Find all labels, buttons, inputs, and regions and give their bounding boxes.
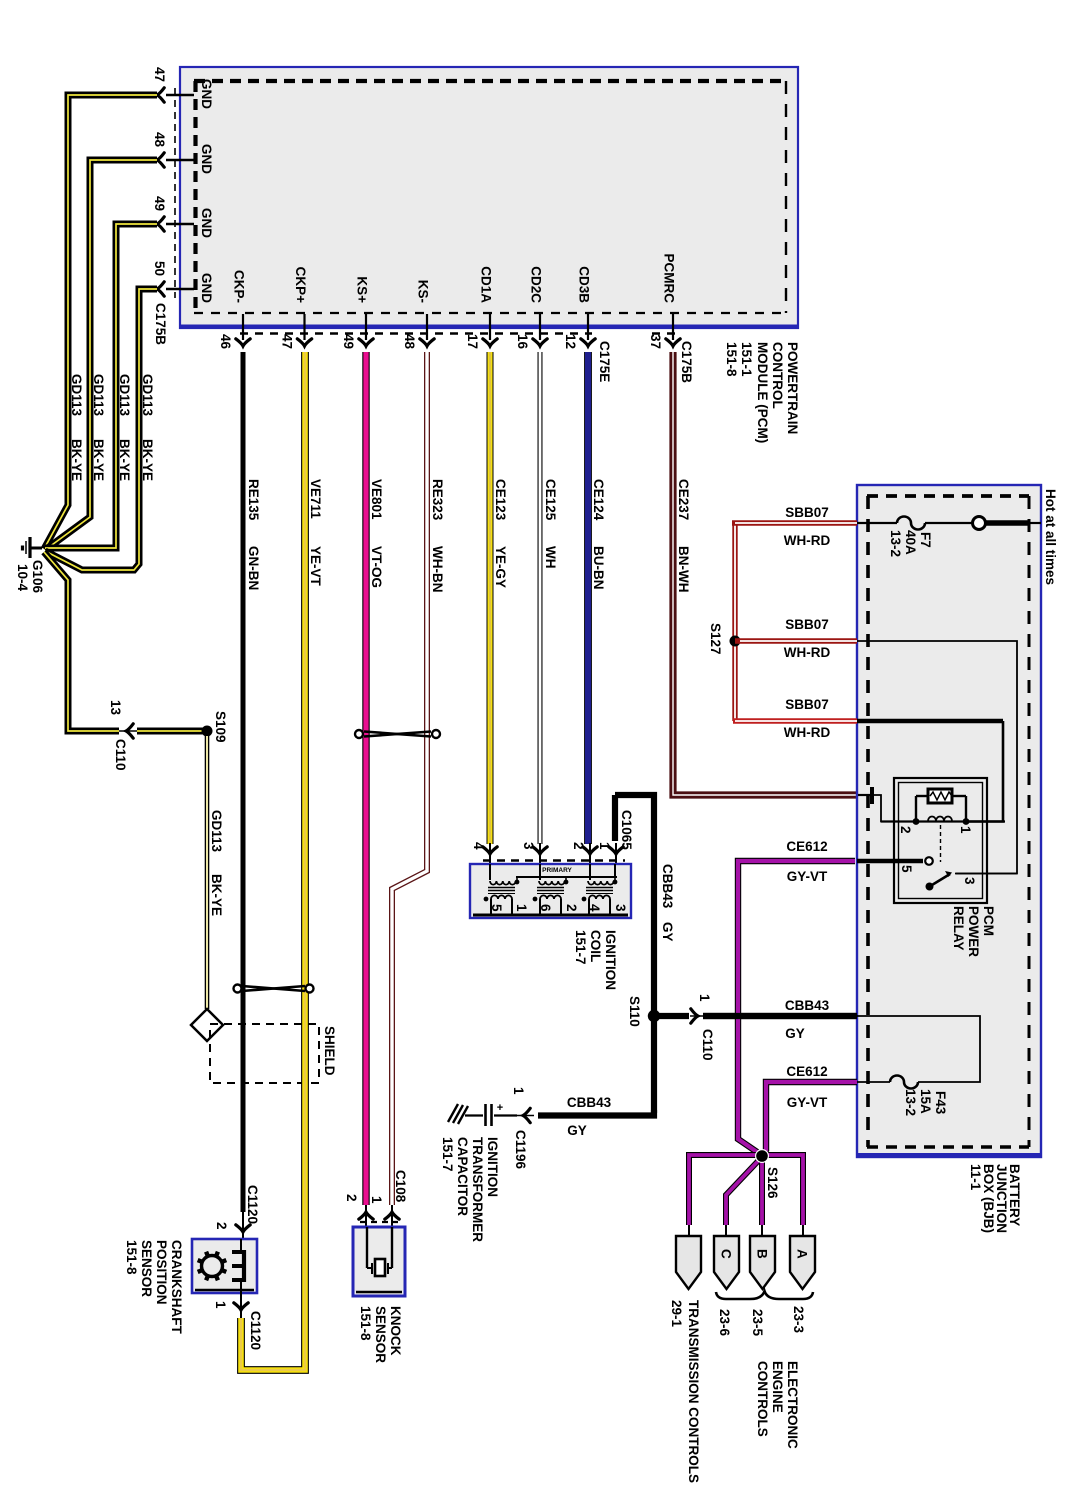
svg-text:CBB43: CBB43 <box>660 864 675 909</box>
svg-text:ENGINE: ENGINE <box>770 1361 785 1413</box>
splice S110 <box>627 996 660 1027</box>
crankshaft sensor pickup <box>232 1239 244 1294</box>
PCM label <box>724 342 800 443</box>
wire SBB07 WH-RD bottom <box>733 697 857 740</box>
svg-text:C175E: C175E <box>597 341 612 382</box>
svg-text:C1120: C1120 <box>245 1185 260 1224</box>
wire CE612 GY-VT fuse F43 to S126 <box>762 1064 857 1155</box>
svg-text:RELAY: RELAY <box>951 906 966 951</box>
svg-text:GY-VT: GY-VT <box>787 869 828 884</box>
wire S126 to transmission connector <box>689 1155 762 1237</box>
wire CBB43 GY S110 to BJB <box>654 998 857 1041</box>
ignition coil pin 4 <box>471 842 497 864</box>
ignition transformer capacitor <box>465 1102 517 1126</box>
wire CBB43 GY over purple crossing <box>703 1013 857 1019</box>
crankshaft position sensor box <box>192 1239 257 1293</box>
svg-text:CONTROLS: CONTROLS <box>755 1361 770 1437</box>
svg-text:CE123: CE123 <box>493 479 508 521</box>
label BATTERY JUNCTION BOX (BJB) 11-1 <box>968 1164 1022 1233</box>
ignition coil box <box>470 864 631 918</box>
wire GD113 BK-YE from pin 49 <box>45 224 157 548</box>
svg-text:F43: F43 <box>933 1091 948 1115</box>
CE237 terminal at BJB <box>858 787 898 822</box>
svg-text:5: 5 <box>489 904 504 912</box>
inline connector C1196 pin 1 <box>511 1087 534 1170</box>
svg-text:2: 2 <box>344 1194 359 1202</box>
splice S109 <box>202 711 229 743</box>
svg-text:151-8: 151-8 <box>124 1240 139 1275</box>
ignition coil pin 2 <box>571 842 597 864</box>
svg-text:BK-YE: BK-YE <box>117 439 132 481</box>
wire CE237 BN-WH (PCMRC) <box>673 352 858 795</box>
svg-text:2: 2 <box>571 842 586 850</box>
svg-text:3: 3 <box>613 904 628 912</box>
svg-text:BK-YE: BK-YE <box>140 439 155 481</box>
svg-text:GND: GND <box>199 79 214 109</box>
PCM pin 37 PCMRC <box>648 254 680 350</box>
svg-text:1: 1 <box>697 994 712 1002</box>
svg-text:BN-WH: BN-WH <box>676 546 691 593</box>
svg-text:SBB07: SBB07 <box>785 505 829 520</box>
svg-text:1: 1 <box>511 1087 526 1095</box>
svg-text:CD2C: CD2C <box>529 266 544 303</box>
wire CE123 YE-GY (CD1A) <box>490 352 508 844</box>
battery junction box BJB <box>857 485 1041 1157</box>
svg-text:3: 3 <box>521 842 536 850</box>
svg-text:1: 1 <box>213 1301 228 1309</box>
svg-text:151-7: 151-7 <box>573 930 588 965</box>
labels 29-1 23-6 23-5 23-3 <box>669 1300 806 1337</box>
svg-text:151-8: 151-8 <box>724 342 739 377</box>
svg-text:VT-OG: VT-OG <box>369 546 384 588</box>
svg-text:GND: GND <box>199 208 214 238</box>
svg-text:CD3B: CD3B <box>577 266 592 303</box>
svg-text:GD113: GD113 <box>91 374 106 417</box>
ignition coil transformers <box>484 864 618 914</box>
svg-text:VE801: VE801 <box>369 479 384 520</box>
svg-text:GD113: GD113 <box>209 810 224 853</box>
svg-text:POSITION: POSITION <box>154 1240 169 1305</box>
svg-text:+: + <box>497 1102 503 1114</box>
svg-text:13-2: 13-2 <box>888 530 903 557</box>
svg-text:RE135: RE135 <box>246 479 261 521</box>
svg-text:GY: GY <box>660 922 675 942</box>
shield dashed box <box>210 1024 319 1083</box>
wire CBB43 to fuse F43 <box>857 1016 980 1082</box>
wire SBB07 WH-RD middle <box>735 617 857 660</box>
label KNOCK SENSOR 151-8 <box>358 1306 403 1363</box>
inline connector C1120 pin 1 <box>213 1294 263 1350</box>
hot feed line <box>986 520 1041 526</box>
svg-text:TRANSMISSION CONTROLS: TRANSMISSION CONTROLS <box>686 1300 701 1483</box>
svg-text:47: 47 <box>280 334 295 349</box>
svg-text:SBB07: SBB07 <box>785 697 829 712</box>
svg-text:CAPACITOR: CAPACITOR <box>455 1137 470 1216</box>
wire CE124 BU-BN (CD3B) <box>588 352 606 844</box>
inline connector C110 pin 1 (right) <box>690 994 715 1061</box>
fuse F7 40A <box>857 517 972 558</box>
labels GD113 BK-YE x4 <box>69 374 155 481</box>
wire GD113 BK-YE S109 to shield <box>207 736 224 1009</box>
svg-text:CD1A: CD1A <box>479 266 494 303</box>
svg-text:POWERTRAIN: POWERTRAIN <box>785 342 800 434</box>
svg-text:49: 49 <box>341 334 356 349</box>
svg-text:40A: 40A <box>903 530 918 555</box>
wire S126 to connector C <box>726 1159 760 1237</box>
svg-text:1: 1 <box>369 1196 384 1204</box>
svg-text:5: 5 <box>899 865 914 873</box>
svg-text:151-8: 151-8 <box>358 1306 373 1341</box>
wire to relay pin 3 (from S127) <box>857 641 1017 874</box>
label CRANKSHAFT POSITION SENSOR 151-8 <box>124 1240 184 1334</box>
svg-text:RE323: RE323 <box>430 479 445 521</box>
twisted pair symbol CKP wires <box>234 985 314 993</box>
svg-text:S126: S126 <box>765 1167 780 1199</box>
chassis ground (capacitor) <box>448 1104 468 1124</box>
PCM pin 12 CD3B <box>563 266 595 349</box>
svg-text:S127: S127 <box>708 623 723 655</box>
svg-text:WH-BN: WH-BN <box>430 546 445 593</box>
svg-text:GY: GY <box>785 1026 805 1041</box>
wire GD113 BK-YE ground to C110 <box>44 552 204 731</box>
svg-text:WH-RD: WH-RD <box>784 645 831 660</box>
inline connector C108 <box>344 1170 408 1227</box>
wire GD113 BK-YE from pin 48 <box>45 160 157 550</box>
svg-text:151-1: 151-1 <box>739 342 754 377</box>
svg-text:S110: S110 <box>627 996 642 1027</box>
svg-text:C110: C110 <box>700 1029 715 1061</box>
wire SBB07 WH-RD vertical <box>732 523 737 721</box>
crankshaft sensor gear <box>198 1252 227 1281</box>
svg-text:C1065: C1065 <box>619 810 634 850</box>
svg-text:WH-RD: WH-RD <box>784 725 831 740</box>
svg-text:GD113: GD113 <box>69 374 84 417</box>
wire VE711 YE-VT (CKP+) <box>241 352 323 1370</box>
svg-text:50: 50 <box>152 261 167 276</box>
wire RE135 GN-BN (CKP-) <box>243 352 261 1212</box>
wire RE323 WH-BN (KS-) <box>392 352 445 1205</box>
svg-text:SENSOR: SENSOR <box>139 1240 154 1297</box>
connector C175B dashed line (left) <box>174 88 176 298</box>
svg-text:PRIMARY: PRIMARY <box>542 867 572 874</box>
svg-text:C108: C108 <box>393 1170 408 1203</box>
svg-text:13-2: 13-2 <box>903 1089 918 1116</box>
svg-text:IGNITION: IGNITION <box>485 1137 500 1197</box>
svg-text:C1120: C1120 <box>248 1311 263 1350</box>
svg-text:A: A <box>795 1249 810 1259</box>
svg-text:SENSOR: SENSOR <box>373 1306 388 1363</box>
relay switch <box>857 825 1017 891</box>
transmission controls connector <box>676 1236 701 1289</box>
svg-text:KS-: KS- <box>416 280 431 303</box>
svg-text:C110: C110 <box>113 739 128 771</box>
PCM pin 50 GND <box>152 261 214 303</box>
PCM pin 46 CKP- <box>218 270 250 350</box>
svg-text:CE125: CE125 <box>543 479 558 521</box>
label IGNITION TRANSFORMER CAPACITOR 151-7 <box>440 1137 500 1242</box>
PCM pin 47 GND <box>152 67 214 109</box>
wire S126 to connector B <box>759 1156 765 1237</box>
shield drain diamond <box>191 1009 223 1041</box>
wire SBB07 WH-RD top feed <box>732 505 857 548</box>
svg-text:YE-GY: YE-GY <box>493 546 508 588</box>
svg-text:CONTROL: CONTROL <box>770 342 785 409</box>
svg-text:12: 12 <box>563 334 578 349</box>
inline connector C110 pin 13 <box>108 700 137 771</box>
svg-text:23-3: 23-3 <box>791 1306 806 1334</box>
connector C1065 dashed line <box>483 859 625 862</box>
svg-text:29-1: 29-1 <box>669 1300 684 1328</box>
knock sensor box <box>353 1227 405 1296</box>
svg-text:1: 1 <box>597 842 612 850</box>
label IGNITION COIL 151-7 <box>573 930 618 990</box>
relay resistor <box>928 789 952 803</box>
wire GD113 BK-YE from pin 47 <box>44 95 157 549</box>
svg-text:KNOCK: KNOCK <box>388 1306 403 1356</box>
svg-text:SBB07: SBB07 <box>785 617 829 632</box>
svg-text:G106: G106 <box>30 560 45 594</box>
svg-text:TRANSFORMER: TRANSFORMER <box>470 1137 485 1242</box>
svg-text:11-1: 11-1 <box>968 1164 983 1191</box>
svg-text:GN-BN: GN-BN <box>246 546 261 590</box>
svg-text:CKP+: CKP+ <box>293 267 308 304</box>
svg-text:PCMRC: PCMRC <box>662 254 677 304</box>
svg-text:23-6: 23-6 <box>717 1309 732 1337</box>
battery terminal circle <box>973 517 986 530</box>
knock sensor piezo element <box>367 1227 392 1276</box>
connector C175E dashed line <box>240 332 592 334</box>
svg-text:CRANKSHAFT: CRANKSHAFT <box>169 1240 184 1334</box>
svg-text:4: 4 <box>471 842 486 850</box>
svg-text:37: 37 <box>648 334 663 349</box>
wire S126 to connector A <box>762 1155 803 1237</box>
wire CE125 WH (CD2C) <box>540 352 558 844</box>
twisted pair symbol KS wires <box>355 730 440 738</box>
svg-text:C175B: C175B <box>679 341 694 383</box>
svg-text:13: 13 <box>108 700 123 716</box>
svg-text:F7: F7 <box>918 532 933 548</box>
svg-text:IGNITION: IGNITION <box>603 930 618 990</box>
svg-text:4: 4 <box>587 904 602 912</box>
PCM pin 16 CD2C <box>515 266 547 349</box>
connector A <box>790 1236 815 1289</box>
PCM power relay <box>894 778 987 903</box>
ignition coil pin 3 <box>521 842 547 864</box>
label G106 10-4 <box>15 560 45 594</box>
svg-text:1: 1 <box>514 904 529 912</box>
svg-text:MODULE (PCM): MODULE (PCM) <box>755 342 770 443</box>
svg-text:151-7: 151-7 <box>440 1137 455 1172</box>
PCM pin 49 KS+ <box>341 276 373 349</box>
svg-text:GD113: GD113 <box>140 374 155 417</box>
PCM powertrain control module box <box>180 67 798 328</box>
svg-text:SHIELD: SHIELD <box>322 1026 337 1076</box>
svg-text:C1196: C1196 <box>513 1130 528 1170</box>
svg-text:GY-VT: GY-VT <box>787 1095 828 1110</box>
PCM pin 47 CKP+ <box>280 267 312 349</box>
svg-text:BK-YE: BK-YE <box>69 439 84 481</box>
connector C175B dash at pin 37 <box>652 332 676 334</box>
svg-text:6: 6 <box>538 904 553 912</box>
PCM pin 17 CD1A <box>465 266 497 349</box>
svg-text:17: 17 <box>465 334 480 349</box>
svg-text:2: 2 <box>564 904 579 912</box>
svg-text:16: 16 <box>515 334 530 350</box>
svg-text:BU-BN: BU-BN <box>591 546 606 590</box>
brace under connectors <box>716 1291 813 1299</box>
wire CBB43 GY coil pin1 to S110 to capacitor <box>538 795 675 1116</box>
fuse F43 15A <box>857 1076 948 1117</box>
svg-text:CBB43: CBB43 <box>785 998 830 1013</box>
svg-text:CE612: CE612 <box>786 839 827 854</box>
svg-text:GD113: GD113 <box>117 374 132 417</box>
svg-text:PCM: PCM <box>981 906 996 936</box>
svg-text:1: 1 <box>958 826 973 834</box>
svg-text:46: 46 <box>218 334 233 350</box>
inline connector C1120 pin 2 <box>214 1185 260 1239</box>
wire GD113 BK-YE from pin 50 <box>45 289 157 570</box>
label CBB43 GY (capacitor leg) <box>567 1095 612 1138</box>
BJB inner dashed border <box>867 496 1029 1147</box>
svg-text:GY: GY <box>567 1123 587 1138</box>
svg-text:47: 47 <box>152 67 167 82</box>
splice S126 <box>755 1149 780 1199</box>
svg-text:GND: GND <box>199 273 214 303</box>
svg-text:CE612: CE612 <box>786 1064 827 1079</box>
PCM pin 48 GND <box>152 132 214 174</box>
svg-text:BK-YE: BK-YE <box>209 874 224 916</box>
svg-text:10-4: 10-4 <box>15 564 30 592</box>
svg-text:CE124: CE124 <box>591 479 606 521</box>
svg-text:C: C <box>719 1249 734 1259</box>
svg-text:BK-YE: BK-YE <box>91 439 106 481</box>
svg-text:KS+: KS+ <box>355 276 370 303</box>
svg-text:48: 48 <box>402 334 417 350</box>
svg-text:WH-RD: WH-RD <box>784 533 831 548</box>
svg-text:49: 49 <box>152 196 167 211</box>
svg-text:CKP-: CKP- <box>232 270 247 303</box>
svg-text:VE711: VE711 <box>308 479 323 519</box>
splice S127 <box>708 623 741 655</box>
svg-text:2: 2 <box>214 1222 229 1230</box>
wire VE801 VT-OG (KS+) <box>366 352 384 1205</box>
ground G106 <box>23 537 43 558</box>
label PCM POWER RELAY <box>951 906 996 957</box>
svg-text:WH: WH <box>543 546 558 569</box>
svg-text:23-5: 23-5 <box>750 1309 765 1337</box>
svg-text:COIL: COIL <box>588 930 603 962</box>
svg-text:15A: 15A <box>918 1089 933 1114</box>
connector C <box>714 1236 739 1289</box>
svg-text:2: 2 <box>898 826 913 834</box>
svg-text:S109: S109 <box>213 711 228 743</box>
svg-text:B: B <box>755 1249 770 1259</box>
svg-text:CBB43: CBB43 <box>567 1095 612 1110</box>
connector B <box>750 1236 775 1289</box>
PCM pin 48 KS- <box>402 280 434 350</box>
svg-text:CE237: CE237 <box>676 479 691 520</box>
svg-text:Hot at all times: Hot at all times <box>1043 489 1058 585</box>
svg-text:YE-VT: YE-VT <box>308 546 323 587</box>
PCM inner dashed border <box>194 81 787 313</box>
svg-text:C175B: C175B <box>153 303 168 345</box>
svg-text:48: 48 <box>152 132 167 148</box>
svg-text:POWER: POWER <box>966 906 981 957</box>
wire to relay pin 1 (from S127) <box>857 721 1003 822</box>
svg-text:ELECTRONIC: ELECTRONIC <box>785 1361 800 1449</box>
relay coil <box>881 796 1005 834</box>
ignition coil secondary pin numbers <box>489 904 628 912</box>
label ELECTRONIC ENGINE CONTROLS <box>755 1361 800 1449</box>
svg-text:GND: GND <box>199 144 214 174</box>
svg-text:3: 3 <box>962 877 977 885</box>
ignition coil pin 1 <box>597 842 623 864</box>
PCM pin 49 GND <box>152 196 214 238</box>
wire CE612 GY-VT relay to S126 <box>738 839 855 1154</box>
